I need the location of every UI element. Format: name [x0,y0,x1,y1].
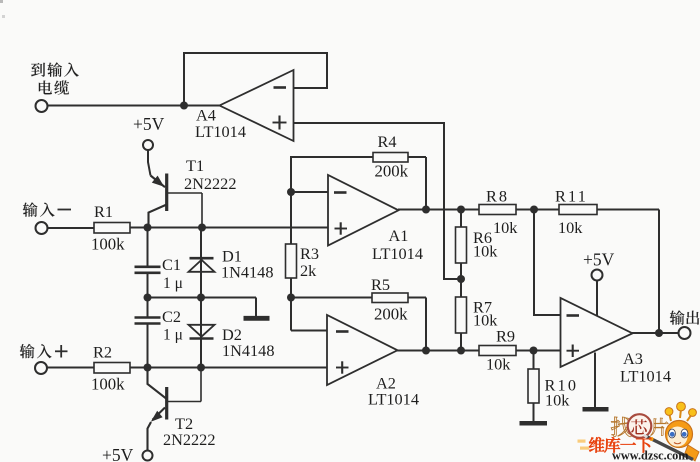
transistor T1 2N2222 [149,174,203,228]
svg-text:R5: R5 [371,275,390,294]
transistor T2 2N2222 [148,368,202,451]
svg-text:10k: 10k [545,391,570,410]
svg-text:LT1014: LT1014 [620,367,671,386]
svg-text:10k: 10k [558,218,583,237]
wire: R3 bottom to A2 inverting input [291,278,327,331]
svg-text:R8: R8 [486,187,509,206]
svg-text:C2: C2 [162,307,181,326]
label R11 10k [555,187,588,238]
diode D1 1N4148 [189,228,215,298]
wire: R7 bottom lead [460,333,462,351]
ground (clamp midpoint) [244,298,270,319]
ground (A3 negative supply) [583,353,609,410]
resistor R5 [372,293,408,303]
label A2 LT1014 [368,374,419,409]
wire: A3 inverting input [534,210,561,316]
wire: A2 output row to R9 [397,350,479,352]
label R1 100k [91,202,125,254]
wire: A4 feedback loop (output to inverting input) [184,53,327,106]
power +5V (bottom) [102,445,153,462]
terminal: to input cable [36,100,48,112]
terminal: output [679,327,691,339]
wire: R10 top lead [533,351,535,370]
resistor R8 [479,205,516,215]
svg-text:T1: T1 [186,156,204,175]
watermark: 找芯片 logo [611,414,668,438]
power +5V (top) [133,114,165,150]
op-amp A2 [327,315,398,385]
watermark: orange ticks [578,440,590,450]
terminal: input minus [36,222,48,234]
wire: R5 feedback left segment [291,297,372,299]
wire: A1 inverting input [291,191,328,193]
svg-text:2k: 2k [300,261,317,280]
resistor R2 [94,363,130,374]
junction: R6 top [457,206,465,214]
label D1 1N4148 [221,247,273,282]
wire: R9 to A3 non-inverting input [516,350,561,352]
resistor R11 [559,205,597,215]
svg-text:C1: C1 [162,255,181,274]
wire: +5V to T1 emitter [148,150,151,176]
junction: R7 bottom [457,347,465,355]
svg-text:A3: A3 [623,349,643,368]
wire: terminal to R1 [47,227,94,229]
wire: A3 feedback vertical [658,210,660,334]
svg-text:1N4148: 1N4148 [221,263,273,282]
svg-text:2N2222: 2N2222 [163,430,215,449]
svg-text:LT1014: LT1014 [195,122,246,141]
svg-text:+5V: +5V [102,445,134,462]
watermark: 维库一下 [589,437,652,453]
node: input-cable label 到输入/电缆 [31,62,79,94]
junction: R4/A1 output [422,206,430,214]
svg-text:+5V: +5V [583,250,615,270]
label R10 10k [545,376,579,410]
svg-text:100k: 100k [91,235,125,254]
svg-text:www.dzsc.com: www.dzsc.com [612,449,689,462]
svg-text:1N4148: 1N4148 [222,341,274,360]
wire: A1 output row to R8 [398,209,479,211]
label R4 200k [375,132,409,181]
label A4 LT1014 [195,106,246,142]
wire: R6 bottom to R7 top [460,263,462,297]
svg-text:+5V: +5V [133,114,165,134]
label C1 1μ [162,255,183,292]
junction: R5/A2 output [422,347,430,355]
op-amp A4 [220,70,294,141]
svg-text:10k: 10k [493,218,518,237]
svg-text:2N2222: 2N2222 [184,174,236,193]
junction: T1 collector / C1 [144,224,152,232]
label A3 LT1014 [620,349,671,386]
wire: A1 inv node down to R3 [290,192,292,244]
svg-text:10k: 10k [473,242,498,261]
junction: R9/R10 [530,347,538,355]
svg-text:LT1014: LT1014 [372,244,423,263]
label R8 10k [486,187,518,238]
svg-text:A1: A1 [389,226,409,245]
resistor R1 [94,223,130,234]
junction: A3 output / feedback [655,329,663,337]
wire: R8 to R11 [516,209,559,211]
svg-text:10k: 10k [486,355,511,374]
junction: R8/R11/A3 inv [530,206,538,214]
op-amp A1 [328,175,399,246]
wire: R4 feedback (A1 inv node up and over) [291,157,373,192]
label C2 1μ [162,307,183,344]
wire: R11 to feedback corner [597,209,659,211]
wire: R5 right down to A2 output [408,298,426,351]
label R3 2k [300,244,319,280]
wire: R2 to A2 non-inverting input [130,367,327,369]
capacitor C2 [135,298,161,368]
label R7 10k [473,298,498,330]
junction: C1-C2 [144,294,152,302]
label R9 10k [486,327,515,374]
junction: A4 output node [180,102,188,110]
svg-text:LT1014: LT1014 [368,390,419,409]
svg-text:1 μ: 1 μ [163,275,183,292]
svg-text:200k: 200k [375,162,409,181]
wire: R6 top lead [460,210,462,228]
junction: T2 collector / C2 [144,364,152,372]
wire: +5V to A3 supply pin [596,281,598,317]
ground (R10) [520,403,548,423]
node: 输入− label [23,202,71,216]
junction: A1 inverting node [287,188,295,196]
svg-text:100k: 100k [91,375,125,394]
label R6 10k [473,228,498,261]
node: 输出 label [670,310,699,324]
svg-text:R2: R2 [93,343,112,362]
label D2 1N4148 [222,325,274,360]
resistor R3 [286,244,297,278]
svg-text:R11: R11 [555,187,588,206]
node: 输入+ label [20,344,68,358]
label T2 2N2222 [163,414,215,449]
wire: A4 non-inverting input to R6/R7 node [294,123,462,279]
resistor R7 [456,297,467,333]
wire: R1 to A1 non-inverting input [130,227,328,229]
resistor R9 [479,346,516,356]
junction: R3/R5 node [287,294,295,302]
label R2 100k [91,343,125,394]
junction: T1 base / D1 [198,224,206,232]
resistor R4 [373,153,408,163]
watermark: pen [644,435,694,460]
wire: R4 right down to A1 output [408,157,426,210]
label A1 LT1014 [372,226,423,263]
svg-text:200k: 200k [374,305,408,324]
wire: terminal to R2 [47,367,95,369]
wire: A3 output [632,332,679,334]
capacitor C1 [135,228,161,298]
svg-text:1 μ: 1 μ [163,327,183,344]
svg-text:R4: R4 [378,132,397,151]
label R5 200k [371,275,408,324]
wire: C1/D1 midpoint row [148,297,257,299]
power +5V (A3) [583,250,615,281]
diode D2 1N4148 [189,298,215,368]
terminal: input plus [35,362,47,374]
junction: R6/R7 midpoint [457,275,465,283]
label T1 2N2222 [184,156,236,193]
junction: D1-D2 [197,294,205,302]
wire: cable terminal to A4 output [48,105,221,107]
op-amp A3 [561,298,633,367]
svg-text:R1: R1 [94,202,113,221]
resistor R6 [456,227,467,263]
watermark: mascot [665,402,699,461]
resistor R10 [528,369,539,403]
svg-text:R9: R9 [496,327,515,346]
junction: T2 base / D2 [197,364,205,372]
svg-text:10k: 10k [473,311,498,330]
